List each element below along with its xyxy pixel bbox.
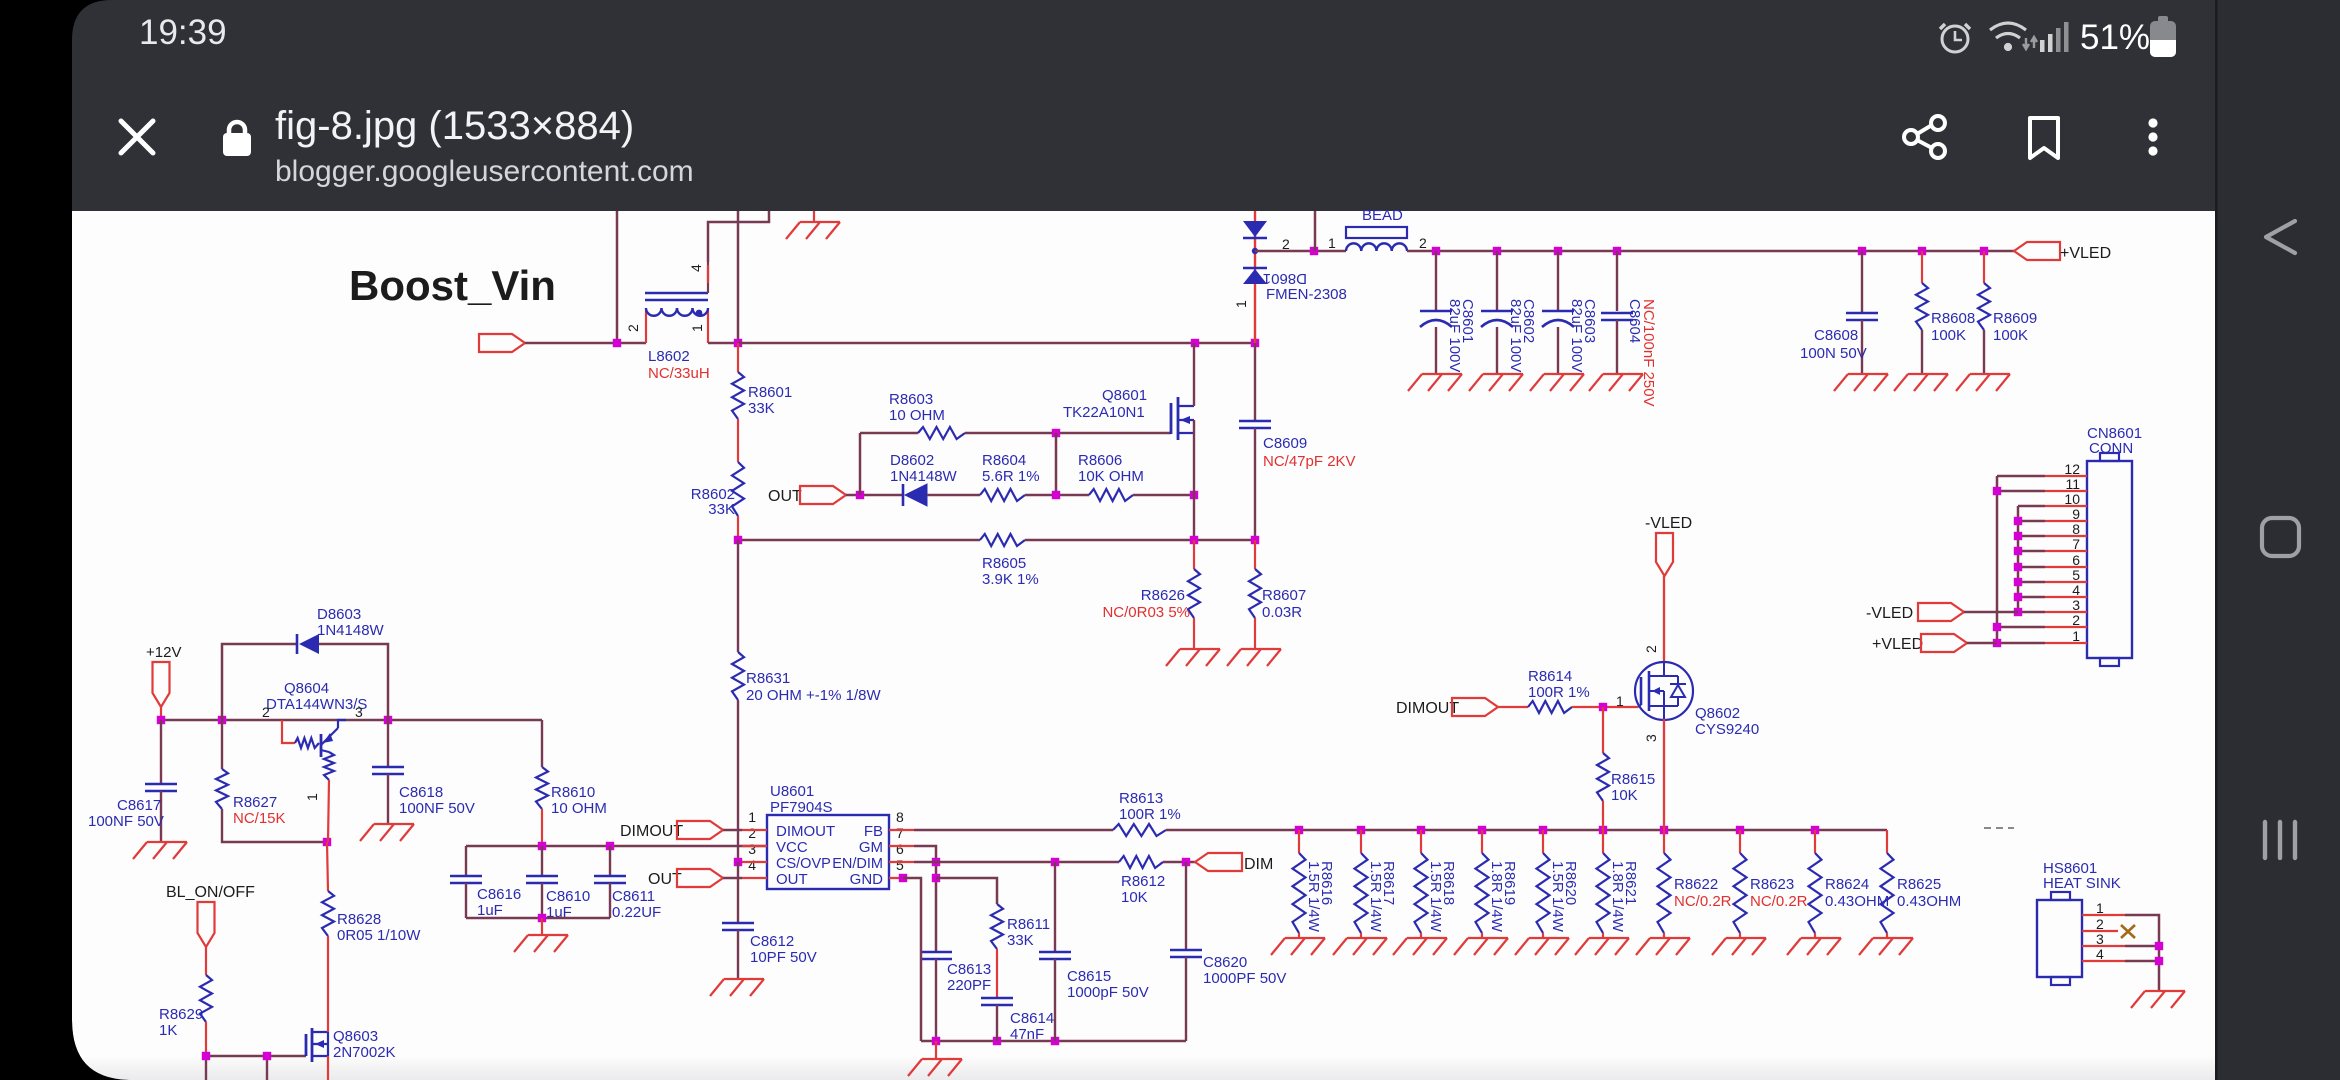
close X button — [121, 121, 153, 153]
svg-text:1.5R 1/4W: 1.5R 1/4W — [1305, 861, 1322, 933]
status alarm icon — [1940, 24, 1970, 52]
status battery icon — [2150, 16, 2176, 57]
wire lower bus — [738, 539, 980, 542]
capacitor C8608 — [1861, 251, 1863, 313]
svg-text:100R 1%: 100R 1% — [1119, 806, 1181, 823]
wire gate row Q8603 — [206, 1055, 306, 1058]
svg-text:1.5R 1/4W: 1.5R 1/4W — [1549, 861, 1566, 933]
svg-text:82uF 100V: 82uF 100V — [1446, 299, 1463, 372]
svg-text:5: 5 — [2072, 567, 2080, 583]
resistor R8606 — [1089, 489, 1133, 501]
capacitor C8601 — [1435, 251, 1437, 311]
wire gate row — [860, 432, 918, 435]
svg-text:R8610: R8610 — [551, 784, 595, 801]
wire L8602 to node — [708, 342, 738, 345]
resistor R8618 — [1420, 830, 1422, 853]
wire vertical from top at x738 — [737, 211, 740, 343]
svg-text:1000PF 50V: 1000PF 50V — [1203, 970, 1286, 987]
resistor R8603 — [918, 427, 965, 439]
net arrow +VLED — [1921, 634, 1967, 652]
svg-text:NC/33uH: NC/33uH — [648, 365, 710, 382]
svg-text:2: 2 — [2096, 916, 2104, 932]
svg-text:1: 1 — [2096, 900, 2104, 916]
svg-text:4: 4 — [748, 857, 756, 873]
svg-text:2N7002K: 2N7002K — [333, 1044, 396, 1061]
capacitor C8602 — [1496, 251, 1498, 311]
svg-text:100NF 50V: 100NF 50V — [88, 813, 164, 830]
svg-text:51%: 51% — [2080, 18, 2150, 57]
ground under R8622 — [1636, 938, 1690, 955]
svg-text:10K: 10K — [1121, 889, 1148, 906]
ground under R8626 — [1166, 649, 1220, 666]
wire HS pin3 — [2125, 945, 2159, 948]
capacitor C8603 — [1557, 251, 1559, 311]
wire GM to C8613 — [914, 846, 936, 952]
resistor R8621 — [1602, 830, 1604, 853]
svg-text:C8613: C8613 — [947, 961, 991, 978]
svg-text:1.8R 1/4W: 1.8R 1/4W — [1609, 861, 1626, 933]
resistor R8620 — [1542, 830, 1544, 853]
svg-text:R8606: R8606 — [1078, 452, 1122, 469]
svg-text:NC/0R03 5%: NC/0R03 5% — [1102, 604, 1190, 621]
svg-text:1: 1 — [689, 324, 705, 332]
ground under C8602 — [1469, 374, 1523, 391]
L8602 pin4 wire — [707, 262, 709, 293]
ground under R8616 — [1271, 938, 1325, 955]
wire R8602 to bus — [737, 516, 739, 540]
svg-text:blogger.googleusercontent.com: blogger.googleusercontent.com — [275, 155, 694, 188]
transistor Q8604 — [282, 720, 346, 842]
ground under C8604 — [1589, 374, 1643, 391]
wire R8604-R8606 — [1025, 494, 1089, 497]
ground top center — [813, 211, 815, 222]
wire Q8603 source down — [327, 1056, 329, 1080]
svg-text:CS/OVP: CS/OVP — [776, 856, 831, 872]
svg-text:1: 1 — [1328, 235, 1336, 251]
capacitor C8615 — [1054, 862, 1056, 952]
svg-text:C8618: C8618 — [399, 784, 443, 801]
svg-text:6: 6 — [896, 841, 904, 857]
svg-text:+VLED: +VLED — [1872, 636, 1923, 653]
net arrow -VLED — [1918, 603, 1964, 621]
ground under HS8601 — [2131, 991, 2185, 1008]
capacitor C8611 — [609, 846, 611, 876]
wire R8601-R8602 — [737, 419, 739, 462]
svg-text:C8620: C8620 — [1203, 954, 1247, 971]
dashes right of bank — [1984, 827, 2014, 829]
wire -VLED to Q8602 — [1663, 576, 1665, 662]
svg-text:10K OHM: 10K OHM — [1078, 468, 1144, 485]
svg-text:82uF 100V: 82uF 100V — [1507, 299, 1524, 372]
svg-text:Boost_Vin: Boost_Vin — [349, 262, 556, 309]
svg-text:D8601: D8601 — [1263, 270, 1307, 287]
svg-text:DIM: DIM — [1244, 856, 1273, 873]
wire mid vertical — [1055, 433, 1058, 495]
svg-text:1K: 1K — [159, 1022, 177, 1039]
svg-text:L8602: L8602 — [648, 348, 690, 365]
svg-text:82uF 100V: 82uF 100V — [1568, 299, 1585, 372]
wire D8603 loop — [222, 644, 297, 720]
wire R8603 to gate — [965, 432, 1171, 435]
svg-text:6: 6 — [2072, 552, 2080, 568]
resistor R8613 — [1113, 824, 1166, 836]
svg-text:R8627: R8627 — [233, 794, 277, 811]
svg-text:10K: 10K — [1611, 787, 1638, 804]
svg-text:C8610: C8610 — [546, 888, 590, 905]
svg-text:R8605: R8605 — [982, 555, 1026, 572]
svg-text:R8629: R8629 — [159, 1006, 203, 1023]
ground under C8608 — [1834, 374, 1888, 391]
svg-text:FMEN-2308: FMEN-2308 — [1266, 286, 1347, 303]
capacitor C8620 — [1185, 862, 1187, 950]
svg-text:R8612: R8612 — [1121, 873, 1165, 890]
IC U8601 PF7904S — [767, 815, 889, 889]
capacitor C8612 — [737, 862, 739, 923]
svg-text:R8624: R8624 — [1825, 876, 1869, 893]
net arrow DIMOUT gate — [1452, 698, 1498, 716]
inductor L8602 — [645, 293, 708, 343]
connector CN8601 — [2087, 461, 2132, 658]
svg-text:0.22UF: 0.22UF — [612, 904, 661, 921]
CN8601 pin stubs — [2045, 476, 2087, 643]
wire pins 10..3 to -VLED vertical — [2018, 505, 2045, 508]
resistor R8601 — [737, 343, 739, 372]
ground under R8619 — [1454, 938, 1508, 955]
svg-text:3: 3 — [748, 841, 756, 857]
svg-text:FB: FB — [864, 823, 883, 840]
ground under C8603 — [1530, 374, 1584, 391]
svg-text:100N 50V: 100N 50V — [1800, 345, 1867, 362]
wire node to D8601/drain — [738, 342, 1255, 345]
diode D8601 FMEN-2308 — [1243, 211, 1267, 343]
rail +12V horizontal — [161, 719, 542, 722]
svg-text:VCC: VCC — [776, 839, 808, 856]
svg-text:10 OHM: 10 OHM — [551, 800, 607, 817]
svg-text:1: 1 — [748, 809, 756, 825]
svg-text:3.9K 1%: 3.9K 1% — [982, 571, 1039, 588]
svg-text:3: 3 — [2096, 931, 2104, 947]
resistor R8619 — [1481, 830, 1483, 853]
transistor Q8601 — [1171, 397, 1194, 440]
svg-text:NC/15K: NC/15K — [233, 810, 286, 827]
svg-text:Q8602: Q8602 — [1695, 705, 1740, 722]
svg-text:NC/0.2R: NC/0.2R — [1750, 893, 1808, 910]
node OUT junction — [846, 494, 903, 496]
wire from top to bead node — [1314, 211, 1317, 251]
ground under C8610 — [541, 918, 543, 935]
nav home squircle — [2262, 518, 2299, 556]
resistor R8622 — [1663, 830, 1665, 853]
ground under rail — [935, 1041, 937, 1059]
svg-text:0.43OHM: 0.43OHM — [1897, 893, 1961, 910]
svg-text:OUT: OUT — [768, 488, 802, 505]
svg-text:4: 4 — [2096, 946, 2104, 962]
svg-text:GM: GM — [859, 839, 883, 856]
status signal bars — [2040, 22, 2069, 52]
capacitor C8609 — [1254, 343, 1256, 421]
svg-text:5: 5 — [896, 857, 904, 873]
resistor R8610 — [541, 720, 543, 767]
capacitor C8614 — [981, 998, 1013, 1005]
capacitor C8610 — [541, 846, 543, 876]
svg-text:NC/100nF 250V: NC/100nF 250V — [1640, 299, 1657, 407]
resistor R8608 — [1921, 251, 1923, 283]
net arrow -VLED down — [1656, 533, 1673, 576]
wire caps bottom — [466, 917, 610, 920]
transistor Q8603 — [306, 1028, 328, 1062]
svg-text:1N4148W: 1N4148W — [890, 468, 958, 485]
svg-text:33K: 33K — [1007, 932, 1034, 949]
resistor R8628 — [327, 842, 328, 891]
svg-text:R8626: R8626 — [1141, 587, 1185, 604]
svg-text:1N4148W: 1N4148W — [317, 622, 385, 639]
resistor R8615 — [1602, 707, 1604, 753]
resistor R8625 — [1886, 830, 1888, 853]
ground under R8620 — [1515, 938, 1569, 955]
svg-text:10: 10 — [2064, 491, 2080, 507]
svg-text:10 OHM: 10 OHM — [889, 407, 945, 424]
share icon — [1904, 116, 1945, 158]
net arrow DIMOUT pin1 — [677, 821, 723, 839]
svg-text:220PF: 220PF — [947, 977, 991, 994]
svg-text:C8614: C8614 — [1010, 1010, 1054, 1027]
content white area — [72, 211, 2216, 1080]
svg-text:3: 3 — [355, 704, 363, 720]
svg-text:BL_ON/OFF: BL_ON/OFF — [166, 884, 255, 901]
resistor R8631 — [737, 540, 739, 652]
nav back chevron — [2266, 221, 2295, 253]
svg-text:1: 1 — [1233, 300, 1249, 308]
net arrow DIM — [1195, 853, 1242, 871]
nav recents bars — [2265, 822, 2295, 858]
svg-text:D8602: D8602 — [890, 452, 934, 469]
svg-text:NC/0.2R: NC/0.2R — [1674, 893, 1732, 910]
wire Q8601 drain — [1193, 343, 1195, 406]
svg-text:+VLED: +VLED — [2060, 245, 2111, 262]
svg-text:R8625: R8625 — [1897, 876, 1941, 893]
svg-text:R8628: R8628 — [337, 911, 381, 928]
svg-text:R8609: R8609 — [1993, 310, 2037, 327]
svg-text:fig-8.jpg (1533×884): fig-8.jpg (1533×884) — [275, 104, 634, 148]
svg-text:2: 2 — [1282, 236, 1290, 252]
net arrow OUT — [800, 486, 846, 504]
svg-text:33K: 33K — [748, 400, 775, 417]
diode D8602 — [902, 484, 905, 506]
svg-text:33K: 33K — [708, 501, 735, 518]
svg-text:2: 2 — [1643, 645, 1659, 653]
svg-text:2: 2 — [1419, 235, 1427, 251]
svg-text:100K: 100K — [1931, 327, 1966, 344]
svg-text:CONN: CONN — [2089, 440, 2133, 457]
resistor R8607 — [1254, 540, 1256, 569]
svg-text:U8601: U8601 — [770, 783, 814, 800]
svg-text:R8607: R8607 — [1262, 587, 1306, 604]
wire Q8601 source — [1193, 420, 1195, 540]
resistor R8602 — [732, 462, 744, 516]
wire ground rail bottom — [921, 1040, 1186, 1043]
net arrow +VLED top — [2014, 242, 2060, 260]
capacitor C8616 — [465, 846, 467, 876]
svg-text:3: 3 — [1643, 734, 1659, 742]
svg-text:+12V: +12V — [146, 644, 181, 661]
svg-text:0R05 1/10W: 0R05 1/10W — [337, 927, 421, 944]
svg-text:8: 8 — [2072, 521, 2080, 537]
svg-text:PF7904S: PF7904S — [770, 799, 833, 816]
ground under C8612 — [710, 979, 764, 996]
wire pins 12,11,2,1 to +VLED vertical — [1997, 475, 2045, 478]
ground under R8609 — [1956, 374, 2010, 391]
svg-text:TK22A10N1: TK22A10N1 — [1063, 404, 1145, 421]
svg-text:2: 2 — [625, 324, 641, 332]
svg-text:C8612: C8612 — [750, 933, 794, 950]
svg-text:Q8601: Q8601 — [1102, 387, 1147, 404]
ground under R8625 — [1859, 938, 1913, 955]
wire VCC rail — [466, 845, 767, 848]
wire R8606 to source node — [1133, 494, 1194, 497]
wire D8602 to R8604 — [927, 494, 980, 497]
menu dots — [2148, 118, 2157, 155]
net arrow Boost_Vin input — [479, 334, 525, 352]
svg-text:R8622: R8622 — [1674, 876, 1718, 893]
svg-text:R8608: R8608 — [1931, 310, 1975, 327]
svg-text:10PF 50V: 10PF 50V — [750, 949, 817, 966]
wire input to L8602 — [525, 342, 646, 345]
svg-text:0.03R: 0.03R — [1262, 604, 1302, 621]
resistor R8617 — [1360, 830, 1362, 853]
svg-text:1.5R 1/4W: 1.5R 1/4W — [1427, 861, 1444, 933]
svg-text:HEAT SINK: HEAT SINK — [2043, 875, 2121, 892]
svg-text:C8609: C8609 — [1263, 435, 1307, 452]
svg-text:1.8R 1/4W: 1.8R 1/4W — [1488, 861, 1505, 933]
svg-text:4: 4 — [2072, 582, 2080, 598]
wire vertical from top at x617 — [616, 211, 619, 343]
net arrow OUT pin4 — [677, 869, 723, 887]
transistor Q8602 CYS9240 — [1635, 662, 1693, 720]
svg-text:7: 7 — [896, 825, 904, 841]
svg-text:R8601: R8601 — [748, 384, 792, 401]
svg-text:DIMOUT: DIMOUT — [1396, 700, 1459, 717]
ferrite bead L8601 BEAD — [1346, 227, 1407, 251]
U8601 pin stubs — [742, 830, 914, 878]
status wifi icon — [1990, 23, 2026, 50]
svg-text:2: 2 — [2072, 612, 2080, 628]
ground under C8601 — [1408, 374, 1462, 391]
wire HS pin1 — [2125, 915, 2159, 991]
svg-text:1: 1 — [2072, 628, 2080, 644]
svg-text:C8615: C8615 — [1067, 968, 1111, 985]
capacitor C8618 — [387, 720, 389, 767]
resistor R8623 — [1739, 830, 1741, 853]
svg-text:20 OHM +-1% 1/8W: 20 OHM +-1% 1/8W — [746, 687, 881, 704]
svg-text:C8617: C8617 — [117, 797, 161, 814]
resistor R8614 — [1528, 701, 1572, 713]
svg-text:1.5R 1/4W: 1.5R 1/4W — [1367, 861, 1384, 933]
ground under R8608 — [1894, 374, 1948, 391]
svg-text:R8623: R8623 — [1750, 876, 1794, 893]
capacitor C8604 — [1616, 251, 1618, 311]
right nav bar — [2217, 0, 2340, 1080]
resistor R8605 — [980, 534, 1025, 546]
svg-text:OUT: OUT — [776, 871, 808, 888]
svg-text:C8616: C8616 — [477, 886, 521, 903]
bookmark icon — [2030, 118, 2058, 158]
svg-text:BEAD: BEAD — [1362, 207, 1403, 224]
svg-text:47nF: 47nF — [1010, 1026, 1044, 1043]
ground under C8618 — [360, 824, 414, 841]
svg-text:R8604: R8604 — [982, 452, 1026, 469]
resistor R8609 — [1983, 251, 1985, 283]
svg-text:R8613: R8613 — [1119, 790, 1163, 807]
svg-text:100K: 100K — [1993, 327, 2028, 344]
ground under R8607 — [1227, 649, 1281, 666]
svg-text:1: 1 — [304, 793, 320, 801]
svg-text:R8603: R8603 — [889, 391, 933, 408]
HS8601 pin stubs — [2082, 915, 2125, 961]
lock icon — [223, 122, 251, 156]
svg-text:R8611: R8611 — [1007, 916, 1050, 933]
resistor R8629 — [200, 975, 212, 1022]
resistor R8604 — [980, 489, 1025, 501]
wire loop left vertical — [859, 433, 862, 495]
svg-text:D8603: D8603 — [317, 606, 361, 623]
wire BEAD to +VLED bus — [1407, 250, 2016, 253]
wire GND pin to rail — [899, 874, 907, 882]
svg-text:8: 8 — [896, 809, 904, 825]
wire EN/DIM row — [914, 861, 1119, 864]
svg-text:EN/DIM: EN/DIM — [832, 856, 883, 872]
capacitor C8613 — [920, 952, 952, 959]
browser chrome bar — [72, 0, 2216, 211]
capacitor C8617 — [160, 720, 162, 784]
svg-text:Q8604: Q8604 — [284, 680, 329, 697]
svg-text:19:39: 19:39 — [139, 13, 227, 52]
svg-text:12: 12 — [2064, 461, 2080, 477]
resistor R8624 — [1814, 830, 1816, 853]
svg-text:1uF: 1uF — [477, 902, 503, 919]
wire R8614 to gate — [1572, 706, 1638, 708]
wire HS pin4 — [2125, 960, 2159, 963]
svg-text:C8608: C8608 — [1814, 327, 1858, 344]
svg-text:7: 7 — [2072, 536, 2080, 552]
svg-text:DTA144WN3/S: DTA144WN3/S — [266, 696, 367, 713]
svg-text:2: 2 — [262, 704, 270, 720]
node pin3 junction — [734, 858, 742, 866]
no-connect X pin2 — [2121, 925, 2135, 938]
svg-text:3: 3 — [2072, 597, 2080, 613]
diode D8603 — [296, 634, 299, 654]
svg-text:R8614: R8614 — [1528, 668, 1572, 685]
ground under R8623 — [1712, 938, 1766, 955]
ground under R8617 — [1333, 938, 1387, 955]
svg-text:100R 1%: 100R 1% — [1528, 684, 1590, 701]
resistor R8627 — [221, 720, 223, 769]
heat sink HS8601 — [2037, 900, 2082, 977]
svg-text:Q8603: Q8603 — [333, 1028, 378, 1045]
ground under R8618 — [1393, 938, 1447, 955]
ground under R8624 — [1787, 938, 1841, 955]
svg-text:100NF 50V: 100NF 50V — [399, 800, 475, 817]
bottom-left rounded screen corner — [72, 1020, 132, 1080]
svg-text:R8631: R8631 — [746, 670, 790, 687]
resistor R8616 — [1298, 830, 1300, 853]
wire D8601 to BEAD — [1255, 250, 1346, 253]
svg-text:0.43OHM: 0.43OHM — [1825, 893, 1889, 910]
ground under C8617 — [133, 842, 187, 859]
resistor R8612 — [1119, 856, 1163, 868]
svg-text:R8615: R8615 — [1611, 771, 1655, 788]
wire FB bus — [914, 829, 1113, 832]
svg-text:C8611: C8611 — [612, 888, 655, 905]
